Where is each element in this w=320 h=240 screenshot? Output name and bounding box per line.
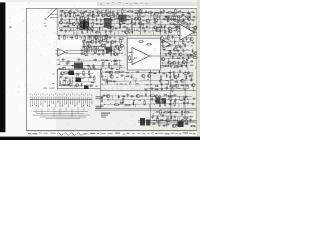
capacitor C110 [159, 95, 161, 99]
resistor R125 [63, 84, 69, 86]
value label [80, 9, 82, 12]
capacitor C50 [82, 46, 86, 48]
wire [98, 27, 100, 31]
capacitor C132 [64, 77, 68, 79]
wire [164, 31, 166, 34]
wire [182, 96, 184, 100]
value label [168, 50, 171, 51]
capacitor C60 [61, 58, 65, 60]
value label [96, 106, 104, 107]
node junction [118, 68, 121, 71]
value label [191, 20, 194, 21]
value label [123, 9, 126, 12]
diode D75 [132, 101, 134, 105]
wire [100, 90, 196, 92]
value label [126, 87, 128, 90]
title block text row [28, 132, 195, 135]
capacitor C118 [191, 103, 195, 105]
capacitor C22 [117, 17, 121, 19]
resistor R42 [131, 25, 133, 31]
resistor R104 [114, 104, 120, 106]
node junction [176, 119, 179, 122]
value label [43, 88, 47, 89]
wire [138, 121, 196, 123]
wire [104, 98, 192, 101]
diode D6 [76, 14, 80, 16]
node junction [186, 98, 189, 101]
diode D70 [145, 93, 147, 97]
value label [81, 77, 84, 80]
wire [119, 24, 121, 28]
wire [70, 27, 72, 31]
wire [110, 89, 112, 93]
capacitor C131 [59, 76, 63, 78]
wire [158, 16, 160, 20]
resistor R75 [175, 46, 181, 48]
capacitor C80 [172, 53, 176, 55]
capacitor C1 [64, 11, 66, 15]
crystal Y1 [84, 86, 89, 90]
wire [63, 84, 93, 87]
wire [88, 42, 90, 46]
resistor R81 [170, 62, 172, 68]
value label [101, 115, 108, 116]
diode D32 [159, 29, 161, 33]
transistor Q52 [141, 74, 145, 77]
capacitor C127 [176, 123, 178, 127]
capacitor C107 [102, 95, 106, 97]
diode D83 [63, 79, 67, 81]
capacitor C30 [66, 25, 70, 27]
capacitor C26 [87, 21, 89, 25]
resistor R7 [167, 12, 173, 14]
capacitor C70 [110, 68, 114, 70]
resistor R93 [106, 81, 108, 87]
transistor Q13 [72, 22, 76, 25]
resistor R113 [184, 111, 190, 113]
capacitor C71 [171, 35, 173, 39]
transistor Q45 [193, 52, 197, 55]
wire [86, 50, 88, 54]
value label [101, 59, 104, 62]
value label [172, 12, 175, 15]
diode D20 [140, 23, 144, 25]
capacitor C4 [108, 11, 112, 13]
wire [103, 71, 194, 73]
value label [173, 120, 176, 121]
resistor R57 [86, 41, 92, 43]
capacitor C44 [186, 30, 188, 34]
diode D21 [63, 25, 67, 27]
wire [76, 68, 78, 71]
diode D5 [65, 14, 67, 18]
wire [114, 46, 116, 50]
wire [103, 50, 105, 54]
capacitor C87 [179, 70, 181, 74]
node junction [82, 58, 85, 61]
diode D33 [164, 29, 166, 33]
value label [182, 12, 185, 13]
wire [104, 61, 106, 65]
capacitor C33 [126, 27, 128, 31]
wire [100, 65, 102, 69]
value label [66, 9, 68, 12]
transformer T2 [80, 20, 90, 31]
wire [95, 108, 196, 110]
wire [192, 85, 194, 89]
resistor R32 [79, 24, 85, 26]
wire [128, 62, 132, 64]
wire [126, 35, 128, 70]
wire [102, 27, 104, 31]
capacitor C86 [162, 72, 166, 74]
resistor R23 [80, 17, 82, 23]
wire [87, 46, 89, 50]
resistor R59 [101, 40, 107, 42]
capacitor C124 [189, 118, 191, 122]
resistor R29 [173, 20, 179, 22]
diode D27 [164, 25, 166, 29]
capacitor C10 [163, 9, 165, 13]
capacitor C74 [164, 42, 168, 44]
wire [61, 36, 126, 38]
capacitor C109 [130, 95, 134, 97]
wire [81, 24, 83, 28]
wire [124, 54, 126, 56]
wire [90, 12, 92, 16]
wire [110, 73, 112, 77]
wire [193, 31, 195, 34]
capacitor C40 [105, 30, 107, 34]
wire [162, 58, 191, 59]
op-amp U3 [178, 25, 197, 41]
capacitor C123 [174, 115, 176, 119]
resistor R41 [119, 23, 121, 29]
wire [71, 38, 73, 42]
capacitor C105 [161, 87, 163, 91]
transistor Q33 [100, 44, 104, 47]
capacitor C51 [67, 48, 71, 50]
transistor Q28 [78, 40, 82, 43]
resistor R73 [182, 39, 184, 45]
wire [154, 27, 156, 31]
wire [169, 54, 171, 58]
resistor R4 [122, 9, 124, 15]
wire [164, 42, 166, 46]
wire [160, 81, 162, 85]
resistor R95 [169, 85, 175, 87]
wire [77, 32, 79, 36]
wire [90, 68, 92, 71]
transistor Q8 [137, 17, 141, 20]
diode D7 [164, 16, 168, 18]
resistor R24 [103, 19, 109, 21]
capacitor C6 [116, 11, 118, 15]
value label [100, 36, 102, 39]
diode D40 [110, 52, 112, 56]
resistor R128 [129, 55, 131, 61]
wire [192, 27, 194, 31]
wire [67, 24, 69, 28]
value label [70, 40, 72, 43]
diode D58 [166, 74, 168, 78]
diode D35 [67, 44, 69, 48]
capacitor C27 [153, 22, 157, 24]
capacitor C66 [92, 64, 94, 68]
resistor R118 [190, 125, 196, 127]
resistor R126 [138, 41, 144, 43]
transistor Q63 [165, 119, 169, 122]
wire [79, 24, 81, 28]
resistor R85 [105, 71, 111, 73]
value label [188, 41, 190, 44]
wire [162, 113, 164, 117]
capacitor C57 [93, 52, 97, 54]
capacitor C81 [190, 54, 194, 56]
wire [176, 117, 178, 121]
diode D30 [86, 29, 88, 33]
capacitor C117 [186, 102, 190, 104]
wire [84, 73, 86, 77]
transistor Q60 [106, 94, 110, 97]
wire [111, 96, 113, 100]
IC U6 (dark block) [119, 15, 127, 22]
diode D74 [120, 102, 124, 104]
resistor R129 [176, 25, 178, 31]
value label [77, 66, 80, 69]
resistor R63 [76, 46, 78, 52]
node junction [95, 45, 98, 48]
value label [178, 87, 180, 90]
transistor Q43 [168, 52, 172, 55]
wire [183, 58, 185, 62]
wire [166, 121, 168, 125]
capacitor C36 [174, 26, 178, 28]
value label [186, 13, 190, 14]
resistor R19 [173, 12, 175, 18]
resistor R38 [186, 22, 188, 28]
resistor R96 [101, 88, 107, 90]
capacitor C77 [177, 49, 179, 53]
resistor R122 [88, 70, 90, 76]
transistor Q54 [173, 75, 177, 78]
wire [148, 24, 150, 28]
diode D72 [151, 97, 153, 101]
wire [131, 73, 133, 77]
capacitor C13 [60, 13, 62, 17]
value label [160, 13, 164, 14]
resistor R11 [82, 12, 84, 18]
value label [94, 8, 98, 11]
wire [177, 31, 179, 34]
resistor R62 [104, 43, 106, 49]
value label [95, 86, 97, 87]
wire [104, 87, 189, 89]
value label [166, 116, 169, 119]
resistor R25 [122, 17, 124, 23]
transistor Q58 [191, 83, 195, 86]
IC U10 (dark block) [106, 47, 112, 53]
resistor R92 [106, 80, 112, 82]
capacitor C65 [65, 62, 69, 64]
capacitor C113 [154, 100, 158, 102]
diode D63 [190, 78, 192, 82]
node junction [164, 99, 167, 102]
wire [129, 89, 131, 93]
capacitor C25 [68, 22, 72, 24]
resistor R76 [186, 54, 192, 56]
resistor R98 [172, 86, 174, 92]
resistor R106 [144, 100, 146, 106]
transistor Q39 [160, 36, 164, 39]
transistor Q29 [90, 40, 94, 43]
capacitor C48 [106, 41, 110, 43]
transistor Q49 [182, 61, 186, 64]
wire [76, 73, 78, 77]
wire [104, 12, 106, 16]
node junction [168, 120, 171, 123]
resistor R46 [182, 29, 184, 35]
value label [96, 96, 104, 97]
diode D24 [146, 25, 148, 29]
value label [116, 69, 119, 70]
value label [121, 53, 123, 54]
wire [101, 73, 103, 77]
node junction [108, 22, 111, 25]
resistor R13 [109, 16, 115, 17]
wire [123, 96, 125, 100]
wire [86, 42, 88, 46]
wire [183, 85, 185, 89]
capacitor C82 [172, 55, 174, 59]
module outline (shielded block) [58, 70, 101, 89]
resistor R97 [135, 89, 141, 91]
resistor R80 [164, 65, 170, 67]
wire [59, 73, 93, 76]
wire [179, 96, 181, 100]
diode D2 [83, 10, 87, 12]
transistor Q12 [59, 21, 63, 24]
resistor R68 [103, 50, 105, 56]
wire [149, 20, 151, 24]
diode D26 [161, 25, 163, 29]
value label [73, 49, 76, 50]
wire [61, 46, 124, 47]
op-amp U1 [130, 48, 152, 65]
value label [90, 48, 93, 51]
wire [159, 9, 161, 35]
resistor R116 [186, 119, 188, 125]
capacitor C38 [65, 29, 67, 33]
diode D9 [76, 17, 78, 21]
resistor R130 [195, 25, 197, 31]
transistor Q41 [161, 40, 165, 43]
wire [124, 104, 126, 108]
value label [141, 9, 143, 12]
wire [114, 16, 116, 20]
resistor R30 [178, 20, 184, 22]
value label [116, 76, 118, 79]
wire [61, 27, 63, 31]
wire [67, 12, 69, 16]
resistor R86 [114, 72, 120, 74]
wire [112, 46, 114, 50]
value label [145, 10, 147, 13]
frame border (drawing sheet) [26, 8, 197, 131]
diode D84 [75, 80, 79, 82]
resistor R49 [76, 34, 78, 40]
wire [96, 38, 98, 42]
capacitor C114 [174, 98, 176, 102]
transistor Q24 [124, 31, 128, 34]
IC U9 (dark block) [74, 63, 83, 69]
diode D45 [184, 43, 186, 47]
resistor R54 [63, 40, 69, 42]
wire [115, 100, 117, 104]
wire [181, 46, 183, 50]
value label [126, 2, 128, 5]
capacitor C67 [58, 68, 62, 70]
capacitor C83 [181, 57, 185, 59]
diode D28 [183, 26, 185, 30]
resistor R37 [180, 22, 186, 24]
wire [123, 77, 125, 81]
wire [122, 89, 124, 93]
resistor R39 [78, 28, 84, 30]
capacitor C12 [187, 11, 189, 15]
value label [101, 113, 110, 114]
node junction [119, 64, 122, 67]
wire [167, 16, 169, 20]
transistor Q7 [134, 17, 138, 20]
wire [167, 31, 169, 34]
value label [129, 17, 131, 18]
capacitor C91 [130, 75, 132, 79]
value label [118, 1, 121, 4]
node junction [57, 48, 60, 51]
value label [146, 22, 149, 25]
capacitor C55 [113, 49, 115, 53]
wire [72, 80, 74, 84]
diode D14 [183, 18, 185, 22]
wire [78, 42, 80, 46]
resistor R99 [150, 95, 156, 97]
diode D48 [176, 57, 180, 59]
transistor Q5 [101, 14, 105, 17]
wire [139, 85, 141, 89]
transistor Q38 [62, 67, 66, 70]
diode D61 [112, 80, 116, 82]
value label [142, 19, 145, 22]
wire [164, 49, 190, 51]
wire [163, 64, 189, 67]
diode D17 [99, 23, 103, 25]
comparator U4 [161, 41, 173, 49]
diode D43 [86, 65, 90, 67]
wire [139, 31, 141, 34]
resistor R79 [159, 66, 165, 68]
capacitor C52 [79, 49, 83, 51]
wire [63, 77, 94, 80]
wire [50, 16, 58, 18]
transistor Q64 [180, 119, 184, 122]
diode D4 [144, 11, 148, 13]
diode D78 [170, 116, 172, 120]
wire [155, 112, 193, 114]
capacitor C125 [152, 123, 156, 125]
transistor Q50 [109, 71, 113, 74]
node junction [118, 59, 121, 62]
